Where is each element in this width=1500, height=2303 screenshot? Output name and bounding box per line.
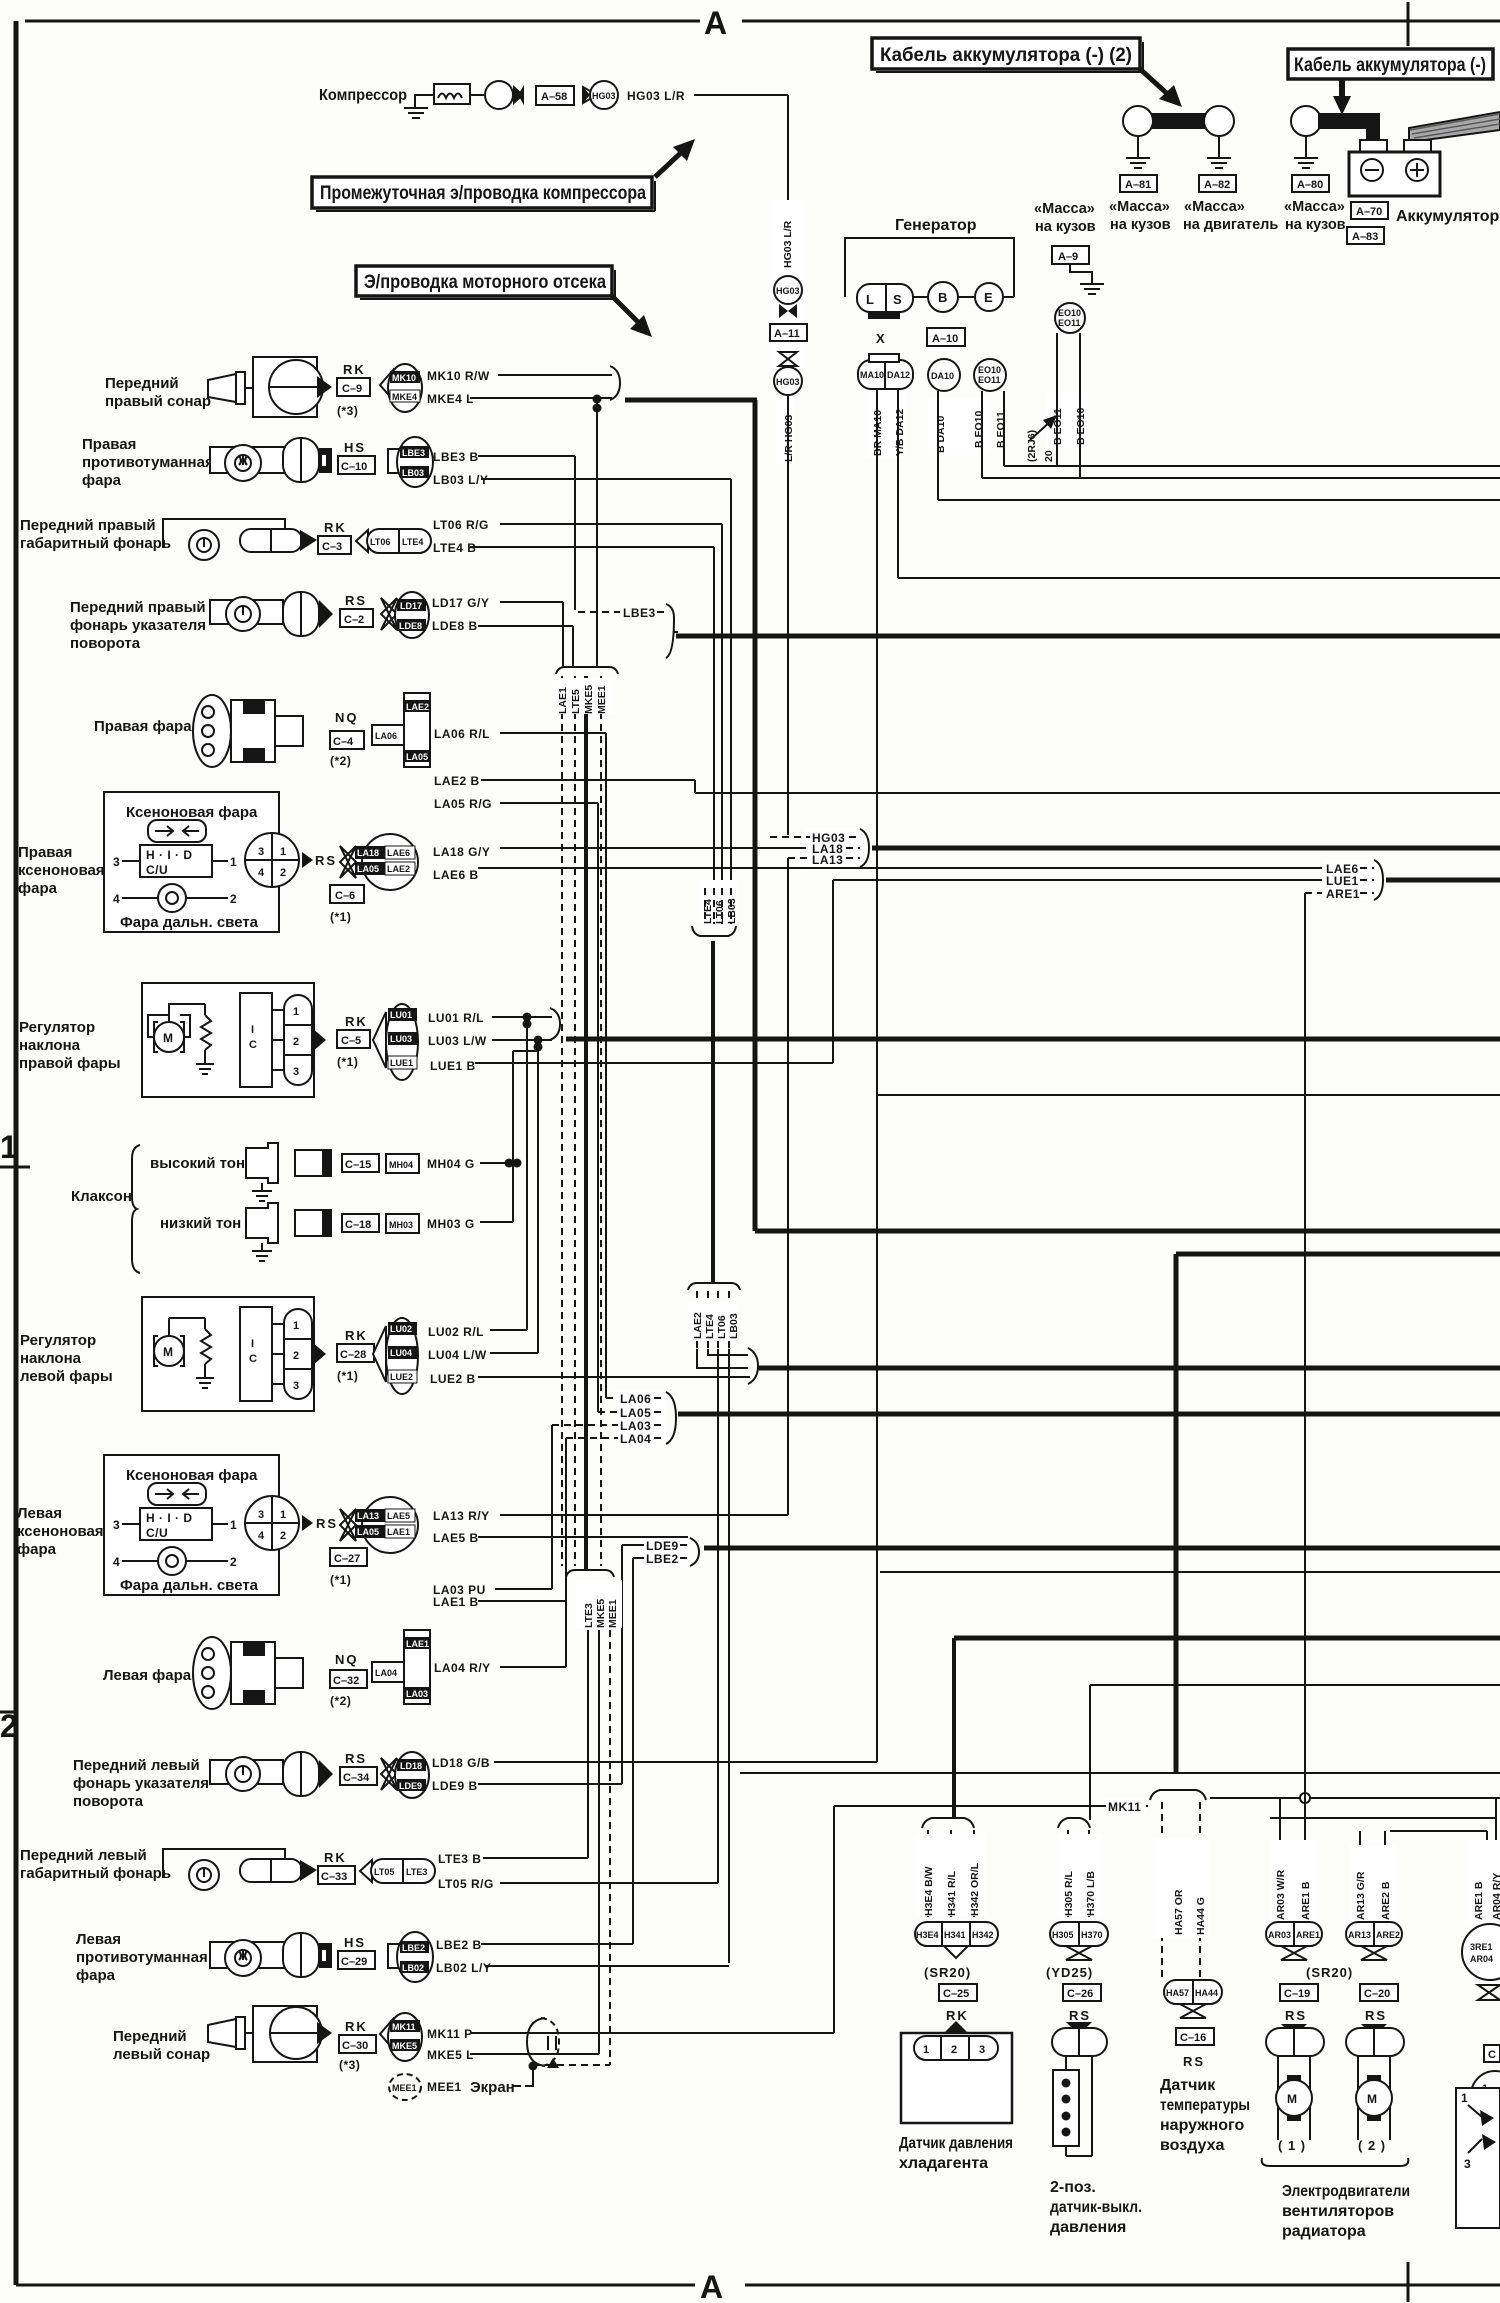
svg-text:LD17: LD17 <box>400 601 422 611</box>
svg-text:C: C <box>249 1353 257 1365</box>
svg-text:фара: фара <box>18 880 58 897</box>
svg-text:LAE1: LAE1 <box>557 687 569 714</box>
svg-text:HA57: HA57 <box>1166 1988 1189 1998</box>
svg-text:Ксеноновая фара: Ксеноновая фара <box>126 1467 258 1484</box>
svg-text:2: 2 <box>293 1350 299 1362</box>
svg-text:воздуха: воздуха <box>1160 2137 1224 2154</box>
svg-text:RS: RS <box>345 1751 367 1766</box>
svg-text:AR03: AR03 <box>1268 1930 1291 1940</box>
svg-text:H3E4 B/W: H3E4 B/W <box>923 1866 935 1916</box>
svg-text:AR04: AR04 <box>1470 1954 1493 1964</box>
svg-text:ксеноновая: ксеноновая <box>17 1523 104 1540</box>
svg-text:датчик-выкл.: датчик-выкл. <box>1050 2199 1142 2216</box>
svg-text:EO10: EO10 <box>978 365 1001 375</box>
svg-text:A–58: A–58 <box>541 91 567 103</box>
svg-text:C–18: C–18 <box>345 1219 371 1231</box>
svg-text:(*1): (*1) <box>330 910 351 924</box>
svg-text:1: 1 <box>293 1320 299 1332</box>
svg-text:H · I · D: H · I · D <box>146 1511 193 1525</box>
svg-text:NQ: NQ <box>335 1652 359 1667</box>
svg-text:2: 2 <box>951 2044 957 2056</box>
svg-text:M: M <box>163 1345 174 1359</box>
svg-text:4: 4 <box>113 892 120 906</box>
svg-text:1: 1 <box>230 1518 237 1532</box>
svg-text:M: M <box>163 1031 174 1045</box>
svg-text:RK: RK <box>345 2019 368 2034</box>
svg-text:3: 3 <box>1464 2157 1471 2171</box>
svg-text:фара: фара <box>76 1967 116 1984</box>
svg-text:Регулятор: Регулятор <box>19 1019 95 1036</box>
svg-text:1: 1 <box>280 1509 286 1521</box>
svg-text:Датчик: Датчик <box>1160 2077 1216 2094</box>
svg-text:C–33: C–33 <box>321 1871 347 1883</box>
svg-text:ARE1 B: ARE1 B <box>1300 1881 1312 1920</box>
svg-text:хладагента: хладагента <box>899 2155 988 2172</box>
svg-text:Кабель аккумулятора (-): Кабель аккумулятора (-) <box>1294 55 1486 76</box>
svg-text:MK11 P: MK11 P <box>427 2027 473 2041</box>
svg-text:LA05 R/G: LA05 R/G <box>434 797 492 811</box>
svg-text:Правая: Правая <box>82 436 136 453</box>
svg-text:1: 1 <box>1461 2091 1468 2105</box>
svg-text:LUE2: LUE2 <box>390 1372 413 1382</box>
svg-text:на кузов: на кузов <box>1285 217 1346 233</box>
svg-text:LAE5 B: LAE5 B <box>433 1531 479 1545</box>
svg-text:3: 3 <box>293 1066 299 1078</box>
svg-text:LU01: LU01 <box>390 1010 412 1020</box>
svg-text:C: C <box>1488 2049 1496 2061</box>
svg-text:LA18 G/Y: LA18 G/Y <box>433 845 490 859</box>
svg-text:1: 1 <box>0 1129 18 1165</box>
svg-text:A–9: A–9 <box>1058 251 1078 263</box>
svg-text:(YD25): (YD25) <box>1046 1965 1093 1980</box>
svg-text:LU03 L/W: LU03 L/W <box>428 1034 487 1048</box>
svg-text:MEE1: MEE1 <box>427 2080 462 2094</box>
svg-text:A–83: A–83 <box>1352 231 1378 243</box>
svg-text:ARE1: ARE1 <box>1326 887 1360 901</box>
svg-text:LTE4: LTE4 <box>702 899 714 924</box>
svg-text:LA05: LA05 <box>357 864 379 874</box>
svg-text:C–26: C–26 <box>1067 1988 1093 2000</box>
svg-text:правой фары: правой фары <box>19 1055 121 1072</box>
svg-text:LTE3 B: LTE3 B <box>438 1852 481 1866</box>
svg-text:MH04: MH04 <box>389 1160 413 1170</box>
svg-text:HG03: HG03 <box>776 286 800 296</box>
svg-text:противотуманная: противотуманная <box>82 454 214 471</box>
svg-text:LD17 G/Y: LD17 G/Y <box>432 596 489 610</box>
svg-text:HA57 OR: HA57 OR <box>1173 1889 1185 1935</box>
svg-text:Y/B DA12: Y/B DA12 <box>894 409 906 456</box>
svg-text:Передний левый: Передний левый <box>73 1757 200 1774</box>
svg-text:LB03: LB03 <box>402 468 424 478</box>
svg-text:MK11: MK11 <box>392 2022 416 2032</box>
svg-text:Передний левый: Передний левый <box>20 1847 147 1864</box>
svg-text:EO11: EO11 <box>1058 318 1081 328</box>
svg-text:«Масса»: «Масса» <box>1109 199 1170 215</box>
svg-text:AR13: AR13 <box>1348 1930 1371 1940</box>
svg-text:LA06 R/L: LA06 R/L <box>434 727 490 741</box>
svg-text:LAE2: LAE2 <box>387 864 410 874</box>
svg-text:MKE5: MKE5 <box>583 685 595 714</box>
svg-text:RS: RS <box>1365 2008 1387 2023</box>
svg-text:A: A <box>704 5 727 41</box>
svg-text:LDE9: LDE9 <box>399 1781 422 1791</box>
svg-text:LD18: LD18 <box>400 1761 422 1771</box>
svg-text:LDE9 B: LDE9 B <box>432 1779 478 1793</box>
svg-text:левый сонар: левый сонар <box>113 2046 210 2063</box>
svg-text:C–4: C–4 <box>333 736 354 748</box>
svg-text:A: A <box>700 2269 723 2303</box>
svg-text:RK: RK <box>324 1850 347 1865</box>
svg-text:LA03: LA03 <box>620 1419 651 1433</box>
svg-text:C–32: C–32 <box>333 1675 359 1687</box>
svg-text:RS: RS <box>1069 2008 1091 2023</box>
svg-text:RK: RK <box>345 1328 368 1343</box>
svg-text:на двигатель: на двигатель <box>1183 217 1278 233</box>
svg-text:C–6: C–6 <box>335 890 355 902</box>
svg-text:MK10: MK10 <box>392 373 416 383</box>
svg-text:H370 L/B: H370 L/B <box>1085 1871 1097 1916</box>
svg-text:DA12: DA12 <box>887 370 910 380</box>
svg-text:наклона: наклона <box>20 1350 82 1367</box>
svg-text:RS: RS <box>1183 2054 1205 2069</box>
svg-text:3RE1: 3RE1 <box>1470 1942 1493 1952</box>
svg-text:C–29: C–29 <box>341 1956 367 1968</box>
svg-text:LBE3 B: LBE3 B <box>433 450 479 464</box>
svg-text:(SR20): (SR20) <box>924 1965 971 1980</box>
svg-text:LTE4: LTE4 <box>402 537 423 547</box>
svg-text:LA06: LA06 <box>620 1392 651 1406</box>
svg-text:MEE1: MEE1 <box>596 685 608 714</box>
svg-text:(SR20): (SR20) <box>1306 1965 1353 1980</box>
svg-text:температуры: температуры <box>1160 2097 1250 2114</box>
svg-text:поворота: поворота <box>70 635 141 652</box>
svg-text:3: 3 <box>258 846 264 858</box>
svg-text:низкий тон: низкий тон <box>160 1215 241 1232</box>
svg-text:H305 R/L: H305 R/L <box>1063 1870 1075 1916</box>
svg-text:противотуманная: противотуманная <box>76 1949 208 1966</box>
svg-text:B EO10: B EO10 <box>973 410 985 448</box>
svg-text:LA13: LA13 <box>357 1511 379 1521</box>
svg-text:LU03: LU03 <box>390 1034 412 1044</box>
svg-text:4: 4 <box>258 867 265 879</box>
svg-text:AR13 G/R: AR13 G/R <box>1355 1871 1367 1920</box>
svg-text:RK: RK <box>946 2008 969 2023</box>
svg-text:MH03: MH03 <box>389 1220 413 1230</box>
svg-text:LAE2 B: LAE2 B <box>434 774 480 788</box>
svg-text:4: 4 <box>258 1530 265 1542</box>
svg-text:3: 3 <box>258 1509 264 1521</box>
svg-text:2: 2 <box>230 892 237 906</box>
svg-text:2: 2 <box>280 867 286 879</box>
svg-text:1: 1 <box>280 846 286 858</box>
svg-text:C–19: C–19 <box>1284 1988 1310 2000</box>
svg-text:на кузов: на кузов <box>1035 219 1096 235</box>
svg-text:1: 1 <box>923 2044 929 2056</box>
svg-text:LA04 R/Y: LA04 R/Y <box>434 1661 491 1675</box>
svg-text:E: E <box>984 290 994 305</box>
svg-text:3: 3 <box>979 2044 985 2056</box>
svg-text:DA10: DA10 <box>931 371 954 381</box>
svg-text:X: X <box>876 331 886 346</box>
svg-text:( 2 ): ( 2 ) <box>1358 2138 1386 2153</box>
svg-text:3: 3 <box>113 855 120 869</box>
svg-text:Левая: Левая <box>17 1505 62 1522</box>
svg-text:LUE2 B: LUE2 B <box>430 1372 476 1386</box>
svg-text:C: C <box>249 1039 257 1051</box>
svg-text:«Масса»: «Масса» <box>1034 201 1095 217</box>
svg-text:Клаксон: Клаксон <box>71 1188 132 1205</box>
svg-text:2: 2 <box>280 1530 286 1542</box>
svg-text:MKE5: MKE5 <box>392 2041 417 2051</box>
svg-text:(*2): (*2) <box>330 754 351 768</box>
svg-text:C–30: C–30 <box>342 2040 368 2052</box>
svg-text:Экран: Экран <box>470 2079 515 2096</box>
svg-text:I: I <box>251 1338 254 1350</box>
svg-text:наружного: наружного <box>1160 2117 1244 2134</box>
svg-text:MK10 R/W: MK10 R/W <box>427 369 490 383</box>
svg-text:ARE2 B: ARE2 B <box>1380 1881 1392 1920</box>
svg-text:ARE2: ARE2 <box>1376 1930 1400 1940</box>
svg-text:C–15: C–15 <box>345 1159 371 1171</box>
svg-text:LAE6 B: LAE6 B <box>433 868 479 882</box>
svg-text:HA44 G: HA44 G <box>1195 1897 1207 1935</box>
svg-text:LU04: LU04 <box>390 1348 412 1358</box>
svg-text:LTE4 B: LTE4 B <box>433 541 476 555</box>
svg-text:LA13 R/Y: LA13 R/Y <box>433 1509 490 1523</box>
svg-text:LT06: LT06 <box>370 537 390 547</box>
svg-text:LT05 R/G: LT05 R/G <box>438 1877 494 1891</box>
svg-text:LD18 G/B: LD18 G/B <box>432 1756 490 1770</box>
svg-text:фонарь указателя: фонарь указателя <box>70 617 206 634</box>
svg-text:LU02: LU02 <box>390 1324 412 1334</box>
svg-text:LB03: LB03 <box>728 1313 740 1339</box>
svg-text:H3E4: H3E4 <box>916 1930 939 1940</box>
svg-text:C–9: C–9 <box>342 383 362 395</box>
svg-text:левой фары: левой фары <box>20 1368 113 1385</box>
svg-text:LAE6: LAE6 <box>387 848 410 858</box>
svg-text:C/U: C/U <box>146 1526 168 1540</box>
svg-text:MA10: MA10 <box>860 370 884 380</box>
svg-text:(*1): (*1) <box>330 1573 351 1587</box>
svg-text:LTE5: LTE5 <box>570 689 582 714</box>
svg-text:LB02: LB02 <box>402 1963 424 1973</box>
svg-text:Кабель аккумулятора (-) (2): Кабель аккумулятора (-) (2) <box>880 45 1132 66</box>
svg-text:C–28: C–28 <box>340 1349 366 1361</box>
svg-text:LUE1: LUE1 <box>1326 874 1359 888</box>
svg-text:C–20: C–20 <box>1364 1988 1390 2000</box>
svg-text:A–82: A–82 <box>1204 179 1230 191</box>
svg-text:на кузов: на кузов <box>1110 217 1171 233</box>
svg-text:MEE1: MEE1 <box>607 1599 619 1628</box>
svg-text:EO10: EO10 <box>1058 308 1081 318</box>
svg-text:Передний правый: Передний правый <box>70 599 206 616</box>
svg-text:MKE4: MKE4 <box>392 392 417 402</box>
svg-text:MKE4 L: MKE4 L <box>427 392 474 406</box>
svg-text:B: B <box>938 290 948 305</box>
svg-text:(*3): (*3) <box>337 404 358 418</box>
svg-text:H305: H305 <box>1052 1930 1074 1940</box>
svg-text:I: I <box>251 1024 254 1036</box>
svg-text:Передний: Передний <box>105 375 179 392</box>
svg-text:Промежуточная э/проводка компр: Промежуточная э/проводка компрессора <box>320 183 646 204</box>
svg-text:фара: фара <box>82 472 122 489</box>
svg-text:LB03 L/Y: LB03 L/Y <box>433 473 488 487</box>
svg-text:2: 2 <box>230 1555 237 1569</box>
svg-text:Левая: Левая <box>76 1931 121 1948</box>
svg-text:HA44: HA44 <box>1195 1988 1218 1998</box>
svg-text:фонарь указателя: фонарь указателя <box>73 1775 209 1792</box>
svg-text:C–34: C–34 <box>343 1772 370 1784</box>
svg-text:RK: RK <box>345 1014 368 1029</box>
svg-text:Фара дальн. света: Фара дальн. света <box>120 914 259 931</box>
svg-text:Правая: Правая <box>18 844 72 861</box>
svg-text:LT06: LT06 <box>714 900 726 924</box>
svg-text:LAE2: LAE2 <box>406 702 429 712</box>
svg-text:LA13: LA13 <box>812 853 843 867</box>
svg-text:LAE1 B: LAE1 B <box>433 1595 479 1609</box>
svg-text:Ксеноновая фара: Ксеноновая фара <box>126 804 258 821</box>
svg-text:MKE5 L: MKE5 L <box>427 2048 474 2062</box>
svg-text:фара: фара <box>17 1541 57 1558</box>
svg-text:C–27: C–27 <box>334 1553 360 1565</box>
svg-text:LUE1: LUE1 <box>390 1058 413 1068</box>
svg-text:2: 2 <box>293 1036 299 1048</box>
svg-text:S: S <box>893 292 903 307</box>
svg-text:LA05: LA05 <box>357 1527 379 1537</box>
svg-text:HG03: HG03 <box>592 91 616 101</box>
svg-text:HG03 L/R: HG03 L/R <box>627 89 685 103</box>
svg-text:«Масса»: «Масса» <box>1184 199 1245 215</box>
svg-text:A–81: A–81 <box>1125 179 1151 191</box>
svg-text:Э/проводка моторного отсека: Э/проводка моторного отсека <box>364 272 606 293</box>
svg-text:LT06 R/G: LT06 R/G <box>433 518 489 532</box>
svg-text:(*2): (*2) <box>330 1694 351 1708</box>
svg-text:MKE5: MKE5 <box>595 1599 607 1628</box>
svg-text:ARE1 B: ARE1 B <box>1473 1881 1485 1920</box>
svg-text:LBE2: LBE2 <box>646 1552 679 1566</box>
svg-text:LDE8 B: LDE8 B <box>432 619 478 633</box>
svg-text:C–2: C–2 <box>344 614 364 626</box>
svg-text:A–11: A–11 <box>774 328 800 340</box>
svg-text:L: L <box>866 292 875 307</box>
svg-text:LA04: LA04 <box>620 1432 651 1446</box>
svg-text:M: M <box>1287 2092 1298 2106</box>
svg-text:1: 1 <box>230 855 237 869</box>
svg-text:LA05: LA05 <box>406 752 428 762</box>
svg-text:H · I · D: H · I · D <box>146 848 193 862</box>
svg-text:LB02 L/Y: LB02 L/Y <box>436 1961 491 1975</box>
svg-text:C–5: C–5 <box>341 1035 361 1047</box>
svg-text:LA05: LA05 <box>620 1406 651 1420</box>
svg-text:LAE1: LAE1 <box>406 1639 429 1649</box>
svg-text:2-поз.: 2-поз. <box>1050 2179 1096 2196</box>
svg-text:Генератор: Генератор <box>895 217 977 234</box>
svg-text:H370: H370 <box>1081 1930 1103 1940</box>
svg-text:NQ: NQ <box>335 710 359 725</box>
svg-text:H341 R/L: H341 R/L <box>946 1870 958 1916</box>
svg-text:Датчик давления: Датчик давления <box>899 2135 1013 2152</box>
svg-text:радиатора: радиатора <box>1282 2223 1366 2240</box>
svg-text:LTE3: LTE3 <box>406 1867 427 1877</box>
svg-text:MK11: MK11 <box>1108 1800 1141 1814</box>
svg-text:LDE8: LDE8 <box>399 621 422 631</box>
svg-text:Правая фара: Правая фара <box>94 718 192 735</box>
svg-text:C–10: C–10 <box>341 461 367 473</box>
svg-text:LAE1: LAE1 <box>387 1527 410 1537</box>
svg-text:высокий тон: высокий тон <box>150 1155 245 1172</box>
svg-text:AR03 W/R: AR03 W/R <box>1275 1869 1287 1920</box>
svg-text:Левая фара: Левая фара <box>103 1667 192 1684</box>
svg-text:RK: RK <box>343 362 366 377</box>
svg-text:LAE5: LAE5 <box>387 1511 410 1521</box>
svg-text:4: 4 <box>113 1555 120 1569</box>
svg-text:C/U: C/U <box>146 863 168 877</box>
svg-text:H342: H342 <box>972 1930 994 1940</box>
svg-text:ARE1: ARE1 <box>1296 1930 1320 1940</box>
svg-text:(*3): (*3) <box>339 2058 360 2072</box>
svg-text:LU01 R/L: LU01 R/L <box>428 1011 484 1025</box>
svg-text:MEE1: MEE1 <box>392 2083 417 2093</box>
svg-text:20: 20 <box>1043 450 1055 462</box>
svg-text:LA03: LA03 <box>406 1689 428 1699</box>
svg-text:габаритный фонарь: габаритный фонарь <box>20 535 171 552</box>
svg-text:RS: RS <box>345 593 367 608</box>
svg-text:( 1 ): ( 1 ) <box>1278 2138 1306 2153</box>
svg-text:LA06: LA06 <box>375 731 397 741</box>
svg-text:поворота: поворота <box>73 1793 144 1810</box>
svg-text:Передний: Передний <box>113 2028 187 2045</box>
svg-text:HG03 L/R: HG03 L/R <box>782 220 794 268</box>
svg-text:вентиляторов: вентиляторов <box>1282 2203 1394 2220</box>
svg-text:Компрессор: Компрессор <box>319 87 407 104</box>
svg-text:B EO11: B EO11 <box>995 411 1007 448</box>
svg-text:LT05: LT05 <box>374 1867 394 1877</box>
svg-text:габаритный фонарь: габаритный фонарь <box>20 1865 171 1882</box>
svg-text:LBE3: LBE3 <box>402 448 425 458</box>
svg-text:A–80: A–80 <box>1297 179 1323 191</box>
svg-text:ксеноновая: ксеноновая <box>18 862 105 879</box>
svg-text:Аккумулятор: Аккумулятор <box>1396 208 1499 225</box>
svg-text:3: 3 <box>293 1380 299 1392</box>
svg-text:LDE9: LDE9 <box>646 1539 679 1553</box>
svg-text:Фара дальн. света: Фара дальн. света <box>120 1577 259 1594</box>
svg-text:RS: RS <box>315 853 337 868</box>
svg-text:RS: RS <box>316 1516 338 1531</box>
svg-text:LT06: LT06 <box>716 1315 728 1339</box>
svg-text:LUE1 B: LUE1 B <box>430 1059 476 1073</box>
svg-text:Регулятор: Регулятор <box>20 1332 96 1349</box>
svg-text:LBE2: LBE2 <box>402 1943 425 1953</box>
svg-text:LAE2: LAE2 <box>692 1312 704 1339</box>
svg-text:B DA10: B DA10 <box>935 415 947 453</box>
svg-text:LBE3: LBE3 <box>623 606 656 620</box>
svg-text:A–70: A–70 <box>1356 206 1382 218</box>
svg-text:(*1): (*1) <box>337 1055 358 1069</box>
svg-text:Передний правый: Передний правый <box>20 517 156 534</box>
svg-text:RK: RK <box>324 520 347 535</box>
svg-text:H341: H341 <box>944 1930 966 1940</box>
svg-text:M: M <box>1367 2092 1378 2106</box>
svg-text:давления: давления <box>1050 2219 1126 2236</box>
svg-text:EO11: EO11 <box>978 375 1001 385</box>
svg-text:LA04: LA04 <box>375 1668 397 1678</box>
svg-text:HG03: HG03 <box>776 377 800 387</box>
svg-text:C–3: C–3 <box>322 541 342 553</box>
svg-text:RS: RS <box>1285 2008 1307 2023</box>
svg-text:MH03 G: MH03 G <box>427 1217 475 1231</box>
svg-text:Электродвигатели: Электродвигатели <box>1282 2183 1410 2200</box>
svg-text:C–16: C–16 <box>1180 2032 1206 2044</box>
